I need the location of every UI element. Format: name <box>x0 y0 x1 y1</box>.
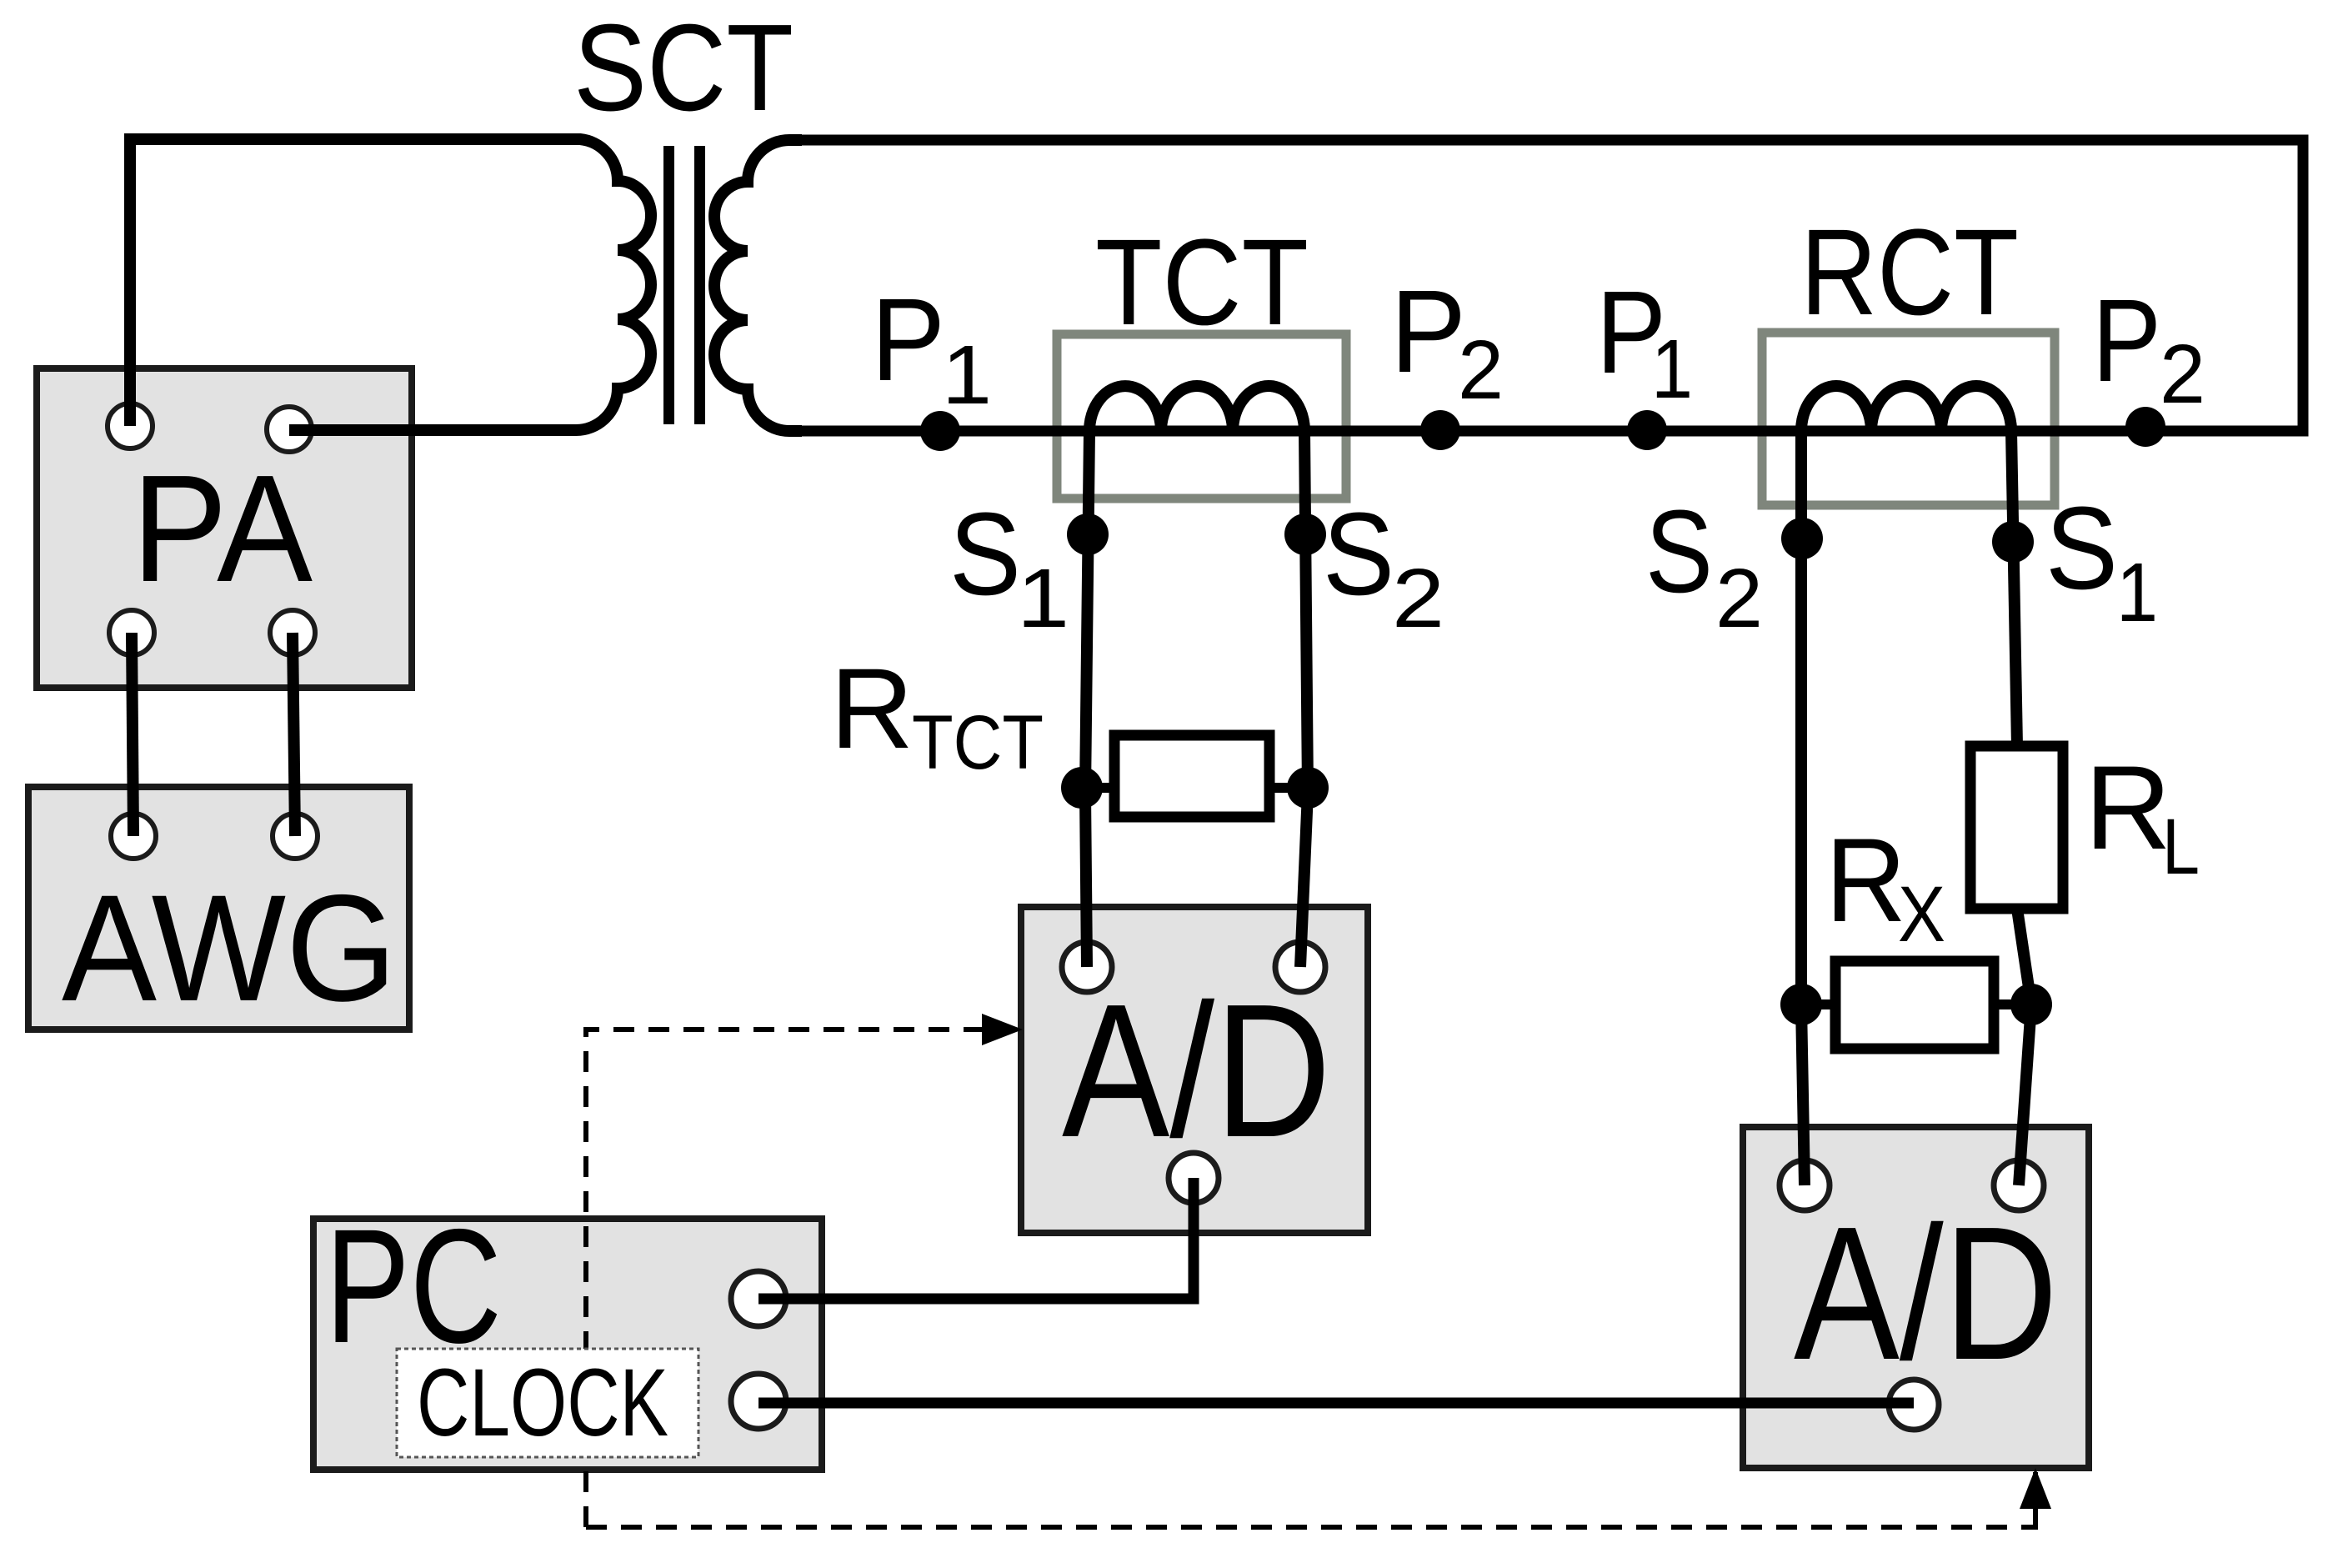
svg-text:2: 2 <box>1715 552 1763 645</box>
terminal A/D U1 ch2 <box>1275 942 1325 992</box>
wire PA lower-left to AWG <box>132 633 133 836</box>
node S1 of TCT <box>1067 513 1109 555</box>
svg-text:P: P <box>871 273 945 405</box>
terminal PC clock <box>731 1374 786 1429</box>
SCT core bar right <box>694 146 705 424</box>
svg-text:R: R <box>2085 742 2171 874</box>
A/D converter box U1 (left) <box>1021 907 1368 1233</box>
PA box <box>37 368 412 688</box>
terminal A/D U1 ch1 <box>1062 942 1112 992</box>
PC box <box>313 1219 822 1470</box>
svg-text:A/D: A/D <box>1794 1188 2058 1400</box>
wire TCT S2 leg <box>1300 431 1308 967</box>
svg-text:SCT: SCT <box>573 0 794 137</box>
terminal PC data <box>731 1271 786 1326</box>
svg-text:RCT: RCT <box>1800 204 2019 341</box>
terminal PA out <box>267 407 312 452</box>
node S2 of TCT <box>1284 513 1326 555</box>
svg-text:2: 2 <box>1392 552 1444 645</box>
svg-text:AWG: AWG <box>62 863 397 1033</box>
arrowhead into A/D U1 <box>982 1014 1023 1045</box>
AWG box <box>28 787 409 1029</box>
svg-text:S: S <box>1645 485 1713 617</box>
SCT core bar left <box>663 146 674 424</box>
svg-text:TCT: TCT <box>912 700 1044 785</box>
node RTCT right <box>1287 767 1329 809</box>
wire PC clock to A/D U2 <box>758 1398 1914 1409</box>
TCT core box <box>1057 334 1346 498</box>
resistor RTCT <box>1114 735 1269 817</box>
svg-text:P: P <box>1390 265 1466 397</box>
CLOCK sub-box <box>397 1349 698 1457</box>
svg-text:R: R <box>1825 814 1906 947</box>
terminal A/D U1 trig <box>1169 1153 1219 1203</box>
svg-text:1: 1 <box>2116 546 2158 639</box>
svg-text:TCT: TCT <box>1095 214 1309 351</box>
terminal A/D U2 clk <box>1889 1380 1939 1430</box>
wire RTCT stub left <box>1082 783 1121 793</box>
svg-text:R: R <box>830 645 914 773</box>
dashed trigger line PC to A/D U1 <box>586 1029 1015 1527</box>
svg-text:X: X <box>1898 870 1945 959</box>
arrowhead into A/D U2 <box>2020 1468 2051 1509</box>
wire PA lower-right to AWG <box>293 633 295 836</box>
svg-text:1: 1 <box>1017 552 1069 645</box>
terminal A/D U2 ch2 <box>1994 1160 2044 1210</box>
terminal PA in lower-left <box>109 610 154 655</box>
wire TCT S1 leg <box>1085 431 1089 967</box>
svg-text:CLOCK: CLOCK <box>417 1350 668 1456</box>
terminal A/D U2 ch1 <box>1780 1160 1830 1210</box>
svg-text:2: 2 <box>2160 328 2205 421</box>
wire PA to SCT primary top <box>130 139 576 426</box>
svg-text:L: L <box>2162 803 2200 891</box>
transformer SCT primary winding <box>289 139 651 430</box>
node P2 of RCT <box>2125 407 2165 447</box>
wire RCT S1 leg to RL <box>2011 431 2017 746</box>
resistor RL <box>1970 746 2063 909</box>
svg-text:1: 1 <box>942 328 992 422</box>
svg-text:S: S <box>2045 482 2118 614</box>
node S2 of RCT <box>1781 518 1823 559</box>
svg-text:S: S <box>1323 488 1394 619</box>
node P1 of TCT <box>920 411 960 451</box>
svg-text:1: 1 <box>1651 323 1693 416</box>
node P1 of RCT <box>1627 410 1667 450</box>
dashed trigger line PC to A/D U2 <box>586 1525 2038 1530</box>
terminal AWG out left <box>111 814 156 859</box>
node P2 of TCT <box>1420 410 1460 450</box>
svg-text:PA: PA <box>132 443 313 614</box>
RCT secondary winding <box>1801 386 2011 431</box>
svg-text:P: P <box>2092 274 2161 406</box>
node RTCT left <box>1061 767 1103 809</box>
wire SCT secondary top to right edge and main measuring loop <box>789 140 2303 431</box>
node RX right <box>2010 984 2052 1025</box>
RCT core box <box>1762 333 2055 505</box>
svg-text:A/D: A/D <box>1062 965 1331 1177</box>
A/D converter box U2 (right) <box>1743 1127 2089 1468</box>
TCT secondary winding <box>1089 386 1304 431</box>
terminal PA in+ <box>108 403 153 448</box>
wire A/D U1 to PC <box>758 1178 1194 1299</box>
svg-text:S: S <box>949 488 1021 619</box>
transformer SCT secondary winding <box>714 140 802 431</box>
node RX left <box>1780 984 1822 1025</box>
wire RTCT stub right <box>1263 783 1308 793</box>
wire RX stub right <box>1988 999 2031 1009</box>
wire RCT S2 leg <box>1801 431 1805 1185</box>
terminal PA in lower-right <box>270 610 315 655</box>
terminal AWG out right <box>273 814 318 859</box>
wire RX stub left <box>1801 999 1842 1009</box>
node S1 of RCT <box>1992 521 2034 563</box>
svg-text:2: 2 <box>1458 323 1504 417</box>
wire RL to RX junction <box>2017 909 2031 1185</box>
resistor RX <box>1835 961 1994 1049</box>
